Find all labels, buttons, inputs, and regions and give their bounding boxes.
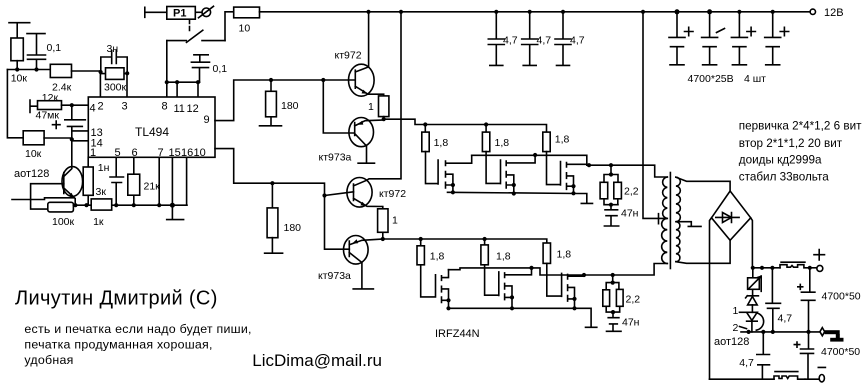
svg-text:180: 180 bbox=[284, 222, 302, 234]
wire pin2 pin3 bbox=[100, 71, 127, 97]
wire pin13 stub bbox=[72, 130, 89, 132]
node bus junctions bbox=[73, 203, 175, 208]
label email bbox=[252, 351, 382, 370]
resistor 1,8 l2 bbox=[481, 245, 511, 265]
svg-text:аот128: аот128 bbox=[714, 336, 749, 348]
diode zener stabilitron bbox=[746, 296, 759, 313]
node plus bus junctions bbox=[751, 266, 812, 270]
svg-text:21к: 21к bbox=[144, 181, 161, 193]
wire pins 8 11 12 row bbox=[167, 82, 200, 97]
resistor 180 lower bbox=[265, 183, 302, 253]
label opto pins bbox=[733, 305, 747, 334]
capacitor 4,7 c bbox=[555, 12, 585, 66]
wire secondary center tap ground bbox=[676, 222, 701, 227]
svg-text:3: 3 bbox=[122, 101, 128, 113]
svg-text:1к: 1к bbox=[93, 216, 104, 228]
transistor M5 IRFZ44N bbox=[485, 265, 532, 311]
svg-text:втор 2*1*1,2 20 вит: втор 2*1*1,2 20 вит bbox=[739, 137, 843, 150]
svg-text:стабил 33вольта: стабил 33вольта bbox=[739, 171, 829, 184]
svg-text:3к: 3к bbox=[96, 186, 107, 198]
resistor 1k bbox=[91, 199, 112, 228]
node drain bus lower junctions bbox=[529, 266, 614, 277]
transistor Q4 kt973a bbox=[344, 236, 383, 289]
resistor 1,8 u1 bbox=[422, 132, 449, 152]
terminal R1 top bbox=[9, 23, 30, 38]
diode bridge VD1 bbox=[712, 191, 751, 240]
svg-text:аот128: аот128 bbox=[14, 168, 49, 180]
svg-text:4,7: 4,7 bbox=[537, 35, 552, 47]
svg-text:47н: 47н bbox=[622, 317, 640, 329]
svg-text:47н: 47н bbox=[621, 208, 639, 220]
svg-text:1: 1 bbox=[368, 101, 374, 113]
capacitor 47n upper bbox=[604, 205, 638, 226]
svg-text:11: 11 bbox=[174, 103, 185, 115]
label aot128 right bbox=[714, 336, 749, 348]
transistor opto aot128 bbox=[62, 167, 83, 206]
resistor 10k lower bbox=[23, 131, 88, 160]
label IRFZ44N bbox=[435, 328, 480, 340]
svg-text:10к: 10к bbox=[25, 148, 42, 160]
svg-text:8: 8 bbox=[162, 101, 168, 113]
transistor M6 IRFZ44N bbox=[547, 263, 584, 310]
wire bridge plus down bbox=[751, 218, 753, 268]
capacitor 1n bbox=[98, 157, 124, 205]
svg-text:3н: 3н bbox=[107, 43, 119, 55]
svg-text:4,7: 4,7 bbox=[503, 35, 518, 47]
svg-text:47мк: 47мк bbox=[36, 110, 60, 122]
svg-text:1,8: 1,8 bbox=[430, 251, 445, 263]
lamp symbol bbox=[195, 6, 213, 17]
svg-text:кт972: кт972 bbox=[379, 188, 406, 200]
wire pin7 pin15 pin16 bbox=[159, 157, 186, 205]
wire rail to terminal bbox=[805, 378, 819, 380]
svg-text:4 шт: 4 шт bbox=[744, 73, 766, 85]
svg-text:4,7: 4,7 bbox=[778, 313, 793, 325]
svg-text:180: 180 bbox=[281, 100, 299, 112]
label note1 bbox=[24, 322, 251, 336]
wire pin10 to driver bbox=[215, 149, 354, 250]
wire left drop bbox=[7, 70, 23, 138]
svg-text:2,2: 2,2 bbox=[624, 186, 639, 198]
svg-text:4,7: 4,7 bbox=[739, 357, 754, 369]
transformer T1 primary bbox=[662, 177, 668, 264]
svg-text:10: 10 bbox=[194, 147, 206, 159]
capacitor 47n lower bbox=[607, 312, 640, 331]
svg-text:4700*50: 4700*50 bbox=[821, 346, 860, 358]
wire pin9 to driver bbox=[215, 80, 354, 121]
wire source bus upper to ground bbox=[448, 192, 593, 203]
svg-text:IRFZ44N: IRFZ44N bbox=[435, 328, 480, 340]
inductor L1 plus bbox=[780, 262, 810, 268]
svg-text:доиды кд2999а: доиды кд2999а bbox=[739, 154, 822, 167]
capacitor 4700*25 a bbox=[669, 12, 693, 65]
capacitor 4700*25 c bbox=[731, 12, 755, 65]
transistor M2 IRFZ44N bbox=[486, 152, 535, 196]
node middle bus junctions bbox=[747, 330, 811, 334]
capacitor 0,1 left bbox=[27, 34, 61, 70]
svg-text:удобная: удобная bbox=[24, 353, 73, 367]
node emitter lower junction bbox=[381, 237, 385, 241]
capacitor 47mk bbox=[36, 105, 86, 167]
wire base link upper bbox=[323, 80, 354, 133]
transistor Q1 kt972 bbox=[349, 12, 384, 96]
svg-text:1,8: 1,8 bbox=[434, 137, 449, 149]
node gate bus upper junctions bbox=[423, 122, 488, 126]
resistor 3k bbox=[83, 167, 106, 205]
terminal minus output bbox=[819, 375, 824, 382]
svg-text:2: 2 bbox=[733, 322, 739, 334]
svg-text:12к: 12к bbox=[42, 92, 59, 104]
node drain bus upper junctions bbox=[533, 153, 613, 167]
wire switch to rail bbox=[225, 12, 234, 41]
terminal plus output bbox=[814, 250, 825, 272]
resistor 300k bbox=[101, 68, 127, 94]
capacitor 0,1 bootstrap bbox=[191, 55, 227, 82]
capacitor 3n bbox=[101, 43, 127, 73]
svg-text:1,8: 1,8 bbox=[495, 137, 510, 149]
svg-text:2,2: 2,2 bbox=[626, 294, 641, 306]
wire emitter stub bbox=[12, 198, 74, 200]
svg-text:Личутин Дмитрий (С): Личутин Дмитрий (С) bbox=[15, 288, 218, 310]
resistor 1,8 u3 bbox=[543, 132, 570, 152]
svg-text:кт972: кт972 bbox=[335, 50, 362, 62]
svg-text:4,7: 4,7 bbox=[570, 35, 585, 47]
capacitor 4700*25 b bbox=[702, 12, 725, 65]
node pin4 junction bbox=[70, 103, 74, 107]
inductor L2 minus bbox=[774, 372, 805, 380]
svg-text:первичка 2*4*1,2 6 вит: первичка 2*4*1,2 6 вит bbox=[739, 120, 862, 133]
svg-text:1,8: 1,8 bbox=[496, 251, 511, 263]
node driver lower junctions bbox=[270, 181, 326, 198]
terminal 12V bbox=[810, 7, 843, 19]
wire source bus lower to ground bbox=[449, 308, 597, 327]
resistor 1,8 l3 bbox=[543, 243, 571, 263]
wire node to 2.4k bbox=[7, 69, 50, 71]
svg-text:LicDima@mail.ru: LicDima@mail.ru bbox=[252, 351, 382, 370]
svg-text:100к: 100к bbox=[52, 216, 75, 228]
diode LED aot128 bbox=[747, 312, 758, 332]
svg-text:0,1: 0,1 bbox=[213, 63, 228, 75]
wire bridge minus down bbox=[710, 218, 712, 379]
capacitor 4,7 b bbox=[522, 12, 552, 66]
svg-text:есть и печатка если надо будет: есть и печатка если надо будет пиши, bbox=[24, 322, 251, 336]
op-amp U1 TL494 bbox=[88, 97, 215, 159]
resistor 2,2 upper pair bbox=[600, 165, 639, 207]
node gate bus lower junctions bbox=[419, 237, 487, 241]
capacitor 4,7 a bbox=[488, 12, 517, 66]
label kt973a upper bbox=[319, 152, 352, 164]
label kt972 upper bbox=[335, 50, 362, 62]
resistor 10 bbox=[234, 7, 260, 34]
terminal 12k bbox=[30, 100, 38, 113]
wire +12V rail bbox=[260, 11, 811, 13]
svg-text:1,8: 1,8 bbox=[555, 134, 570, 146]
ground under IC bbox=[167, 205, 184, 219]
wire secondary top to bridge bbox=[676, 177, 730, 191]
wire gate bus upper bbox=[384, 119, 547, 132]
resistor 1,8 u2 bbox=[482, 132, 509, 152]
label author bbox=[15, 288, 218, 310]
wire bottom rail bbox=[710, 378, 775, 380]
resistor 10k upper bbox=[11, 38, 28, 85]
svg-text:10: 10 bbox=[239, 23, 251, 35]
label aot128 left bbox=[14, 168, 49, 180]
svg-text:2: 2 bbox=[98, 101, 104, 113]
transistor M1 IRFZ44N bbox=[426, 152, 472, 195]
transistor M3 IRFZ44N bbox=[547, 152, 590, 196]
label kt972 lower bbox=[379, 188, 406, 200]
resistor 1 lower bbox=[378, 209, 398, 239]
svg-text:9: 9 bbox=[204, 114, 210, 126]
mechanical link dashed bbox=[189, 20, 191, 32]
wire plus bus bbox=[752, 267, 780, 269]
capacitor 4700*25 d bbox=[765, 12, 789, 65]
resistor 21k bbox=[128, 157, 160, 205]
node row junctions bbox=[165, 80, 200, 84]
svg-text:TL494: TL494 bbox=[135, 125, 169, 139]
resistor 12k bbox=[38, 92, 89, 110]
svg-text:1: 1 bbox=[90, 147, 96, 159]
svg-text:1: 1 bbox=[733, 305, 739, 317]
connector plug black bbox=[820, 328, 844, 342]
resistor 2.4k bbox=[50, 64, 100, 93]
resistor 2,2 lower pair bbox=[603, 275, 640, 314]
label note2 bbox=[24, 338, 212, 352]
svg-text:печатка продуманная хорошая,: печатка продуманная хорошая, bbox=[24, 338, 212, 352]
transistor Q2 kt973a bbox=[349, 118, 384, 164]
node rail junctions bbox=[366, 9, 774, 14]
svg-text:12В: 12В bbox=[824, 7, 844, 19]
svg-text:0,1: 0,1 bbox=[47, 42, 62, 54]
label 4700*25V bbox=[688, 73, 767, 85]
resistor 1 upper bbox=[368, 96, 389, 119]
wire pin1 bbox=[87, 157, 89, 167]
capacitor 4,7 bottom bbox=[739, 332, 769, 379]
capacitor 4700*50 lower bbox=[794, 332, 860, 379]
capacitor 4,7 output top bbox=[766, 268, 792, 332]
node driver upper junctions bbox=[269, 78, 326, 82]
wire drain bus upper bbox=[472, 155, 668, 177]
resistor trimmer R tune bbox=[748, 268, 762, 296]
svg-text:кт973а: кт973а bbox=[318, 270, 351, 282]
wire pin8 riser bbox=[166, 41, 168, 83]
terminal input left bbox=[145, 7, 167, 17]
wire center tap feed bbox=[643, 12, 667, 224]
svg-text:300к: 300к bbox=[104, 82, 127, 94]
svg-text:12: 12 bbox=[187, 103, 199, 115]
wire gate bus lower bbox=[383, 239, 547, 246]
resistor 180 upper bbox=[260, 80, 299, 126]
svg-text:4700*50: 4700*50 bbox=[822, 291, 861, 303]
transistor M4 IRFZ44N bbox=[421, 265, 451, 311]
switch S1 bbox=[167, 30, 225, 42]
capacitor 4700*50 upper bbox=[798, 268, 861, 332]
wire ground bus under IC bbox=[73, 204, 187, 206]
label primary text bbox=[739, 120, 862, 184]
svg-text:P1: P1 bbox=[173, 8, 186, 20]
wire base loop 100k bbox=[31, 184, 64, 209]
wire drain bus lower bbox=[449, 264, 668, 276]
resistor 1,8 l1 bbox=[417, 246, 445, 265]
wire secondary bottom to bridge bbox=[676, 240, 730, 263]
svg-text:1,8: 1,8 bbox=[557, 249, 572, 261]
svg-text:1: 1 bbox=[392, 215, 398, 227]
node left junctions bbox=[15, 67, 39, 71]
svg-text:4700*25В: 4700*25В bbox=[688, 73, 734, 85]
node emitter upper junction bbox=[382, 117, 386, 121]
svg-text:10к: 10к bbox=[11, 73, 28, 85]
wire middle bus bbox=[741, 331, 820, 333]
relay P1 bbox=[167, 7, 196, 20]
label kt973a lower bbox=[318, 270, 351, 282]
phototransistor arc aot128 bbox=[756, 313, 763, 330]
svg-text:15: 15 bbox=[169, 147, 181, 159]
svg-text:4: 4 bbox=[90, 103, 96, 115]
resistor 100k bbox=[48, 202, 75, 228]
transformer core bbox=[669, 173, 671, 269]
transistor Q3 kt972 bbox=[347, 12, 401, 209]
node feedback junctions bbox=[99, 70, 130, 76]
label note3 bbox=[24, 353, 73, 367]
node pin14 junction bbox=[70, 137, 74, 141]
svg-text:1н: 1н bbox=[98, 162, 110, 174]
transformer T1 secondary bbox=[676, 177, 680, 262]
wire choke to terminal bbox=[810, 267, 817, 269]
svg-text:кт973а: кт973а bbox=[319, 152, 352, 164]
